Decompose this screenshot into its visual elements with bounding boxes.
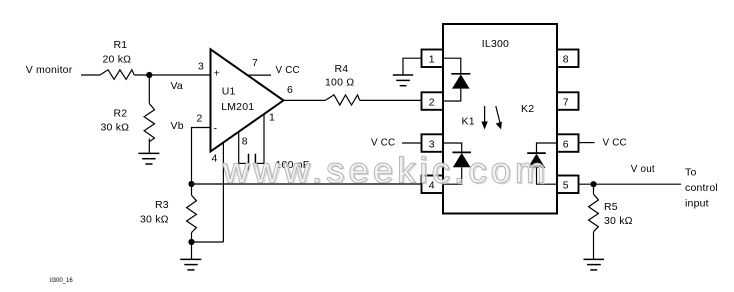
resistor R3 <box>140 184 196 242</box>
node Va junction <box>146 72 183 92</box>
wire junction to R2 <box>148 75 150 104</box>
svg-text:30 kΩ: 30 kΩ <box>604 215 633 227</box>
svg-text:LM201: LM201 <box>221 101 254 113</box>
node R3 top junction <box>188 181 194 187</box>
resistor R1 <box>100 39 134 79</box>
svg-text:control: control <box>685 182 718 194</box>
svg-text:5: 5 <box>563 180 569 192</box>
pin 4 box <box>422 176 444 194</box>
wire R1 to op-amp pin 3 <box>134 74 210 76</box>
svg-text:1: 1 <box>269 111 275 123</box>
pin 4 label and wire down <box>212 143 224 242</box>
LED D1 inside IL300 <box>443 58 470 101</box>
svg-text:8: 8 <box>563 54 569 66</box>
svg-text:7: 7 <box>563 96 569 108</box>
svg-text:R2: R2 <box>114 108 128 120</box>
wire IL300 pin 5 to output <box>579 183 682 185</box>
svg-text:4: 4 <box>212 153 218 165</box>
svg-text:V CC: V CC <box>603 138 627 149</box>
pin 8 label and stub <box>239 132 248 164</box>
svg-text:1: 1 <box>429 54 435 66</box>
resistor R5 <box>589 184 633 259</box>
wire R4 to IL300 pin 2 <box>360 99 422 101</box>
pin 2 label <box>197 113 203 125</box>
ground at IL300 pin 1 <box>393 75 413 86</box>
svg-text:6: 6 <box>563 138 569 150</box>
pin 8 box <box>557 50 579 68</box>
svg-text:R1: R1 <box>114 39 128 51</box>
svg-text:6: 6 <box>287 84 293 96</box>
svg-text:7: 7 <box>252 57 258 69</box>
wire IL300 pin 1 to ground <box>403 58 422 75</box>
pin 6 output wire <box>284 84 326 100</box>
wire IL300 pin 4 long feedback overpaint <box>192 183 422 185</box>
light arrow 2 <box>496 106 502 129</box>
svg-text:IL300: IL300 <box>482 38 509 50</box>
ground below R5 <box>584 259 605 270</box>
svg-text:To: To <box>685 167 697 179</box>
svg-text:il300_16: il300_16 <box>50 278 73 284</box>
svg-text:K1: K1 <box>462 116 475 128</box>
svg-text:-: - <box>214 123 218 135</box>
node R3 bottom junction <box>188 239 194 245</box>
ground below R3 <box>180 259 201 270</box>
pin 3 label <box>198 61 204 73</box>
pin 1 label and stub <box>264 111 275 163</box>
photodiode K2 inside IL300 <box>521 103 557 184</box>
svg-text:R3: R3 <box>155 199 169 211</box>
ground below R2 <box>138 153 159 164</box>
wire IL300 pin 3 to VCC <box>371 138 422 149</box>
pin 3 box <box>422 134 444 152</box>
svg-text:30 kΩ: 30 kΩ <box>140 214 169 226</box>
pin 6 box <box>557 134 579 152</box>
footer id text <box>50 278 73 284</box>
pin 1 box <box>422 50 444 68</box>
svg-text:3: 3 <box>198 61 204 73</box>
svg-text:2: 2 <box>429 96 435 108</box>
svg-text:3: 3 <box>429 138 435 150</box>
pin 7 stub to VCC <box>247 57 300 76</box>
pin 5 box <box>557 176 579 194</box>
photodiode K1 inside IL300 <box>443 116 475 185</box>
op-amp U1 LM201 <box>211 49 284 151</box>
svg-text:R4: R4 <box>335 63 349 75</box>
svg-text:V monitor: V monitor <box>26 64 73 76</box>
node Vb label <box>171 120 184 132</box>
svg-text:input: input <box>685 198 709 210</box>
svg-text:Vb: Vb <box>171 120 184 132</box>
svg-text:+: + <box>214 68 220 80</box>
svg-text:8: 8 <box>242 135 248 147</box>
svg-text:K2: K2 <box>521 103 534 115</box>
node V out junction <box>590 164 655 187</box>
svg-text:V CC: V CC <box>276 65 300 76</box>
wire R3 bottom to ground <box>191 242 193 259</box>
pin 7 box <box>557 92 579 110</box>
capacitor C1 100 pF <box>239 154 310 171</box>
node V monitor label <box>26 64 73 76</box>
svg-text:U1: U1 <box>222 86 236 98</box>
svg-text:2: 2 <box>197 113 203 125</box>
resistor R4 <box>325 63 360 105</box>
svg-text:V out: V out <box>631 164 655 175</box>
svg-text:20 kΩ: 20 kΩ <box>103 54 132 66</box>
resistor R2 <box>101 104 155 142</box>
wire IL300 pin 6 to VCC <box>579 138 627 149</box>
svg-text:30 kΩ: 30 kΩ <box>101 122 130 134</box>
light arrow 1 <box>481 106 487 130</box>
IC IL300 body <box>443 24 557 214</box>
svg-text:R5: R5 <box>604 201 618 213</box>
svg-text:V CC: V CC <box>371 138 395 149</box>
wire input to R1 <box>81 74 100 76</box>
svg-text:100 Ω: 100 Ω <box>325 77 354 89</box>
wire R2 to ground <box>148 139 150 154</box>
wire op-amp pin 2 feedback <box>192 128 211 185</box>
pin 2 box <box>422 92 444 110</box>
node To control input label <box>685 167 718 210</box>
wire IL300 pin 4 long feedback <box>192 183 422 185</box>
wire op-amp pin 4 to R3 bottom <box>192 241 224 243</box>
watermark www.seekic.com <box>222 150 551 192</box>
svg-text:Va: Va <box>171 80 183 92</box>
